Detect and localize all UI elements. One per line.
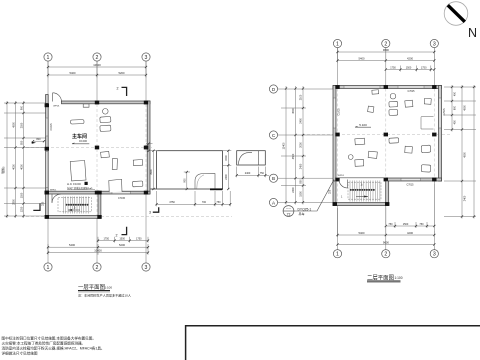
svg-text:750: 750 bbox=[216, 201, 221, 204]
svg-text:2: 2 bbox=[116, 234, 118, 238]
svg-text:C1915: C1915 bbox=[50, 123, 53, 131]
svg-text:2400: 2400 bbox=[292, 187, 295, 193]
grid bubble 3 bottom (plan1) bbox=[142, 263, 150, 271]
svg-text:750: 750 bbox=[260, 172, 265, 175]
svg-text:800: 800 bbox=[36, 138, 41, 141]
svg-text:±0.000: ±0.000 bbox=[79, 139, 87, 143]
svg-text:4050: 4050 bbox=[12, 164, 15, 170]
svg-text:2: 2 bbox=[117, 87, 119, 91]
svg-text:C7015: C7015 bbox=[406, 183, 414, 186]
general notes bbox=[2, 336, 105, 356]
ramp dim vertical 900 bbox=[184, 171, 191, 190]
stair room right wall (plan1) bbox=[98, 194, 101, 218]
svg-text:1: 1 bbox=[336, 41, 339, 47]
right chain line c (plan2) bbox=[473, 85, 475, 219]
svg-text:850: 850 bbox=[300, 179, 303, 184]
equipment m4 (plan1) bbox=[101, 151, 110, 157]
svg-text:N: N bbox=[468, 26, 477, 40]
svg-text:2400: 2400 bbox=[225, 174, 228, 180]
equipment g (plan2) bbox=[355, 138, 365, 145]
top wall (plan1) bbox=[62, 101, 151, 104]
stair room bottom wall (plan2) bbox=[333, 203, 389, 206]
stair room right wall (plan2) bbox=[386, 181, 389, 206]
svg-text:4750: 4750 bbox=[169, 201, 175, 204]
svg-text:D25: D25 bbox=[328, 189, 331, 194]
svg-text:2: 2 bbox=[384, 41, 387, 47]
svg-text:3: 3 bbox=[433, 252, 436, 258]
top segment dimension (plan2) bbox=[336, 56, 435, 61]
grid bubble 3 top (plan2) bbox=[430, 39, 438, 47]
svg-text:1550: 1550 bbox=[20, 192, 23, 198]
grid bubble 2 bottom (plan2) bbox=[382, 250, 390, 258]
svg-text:2: 2 bbox=[96, 265, 99, 271]
svg-text:上: 上 bbox=[360, 182, 363, 186]
grid bubble 2 top (plan1) bbox=[93, 53, 101, 61]
svg-text:2100: 2100 bbox=[300, 94, 303, 100]
svg-text:1500: 1500 bbox=[225, 155, 228, 161]
svg-text:C7015: C7015 bbox=[443, 108, 446, 116]
equipment k (plan2) bbox=[389, 138, 399, 143]
svg-text:4200: 4200 bbox=[407, 56, 413, 60]
ramp platform apron line bbox=[151, 188, 157, 190]
svg-text:2450: 2450 bbox=[300, 163, 303, 169]
stair room bottom wall (plan1) bbox=[46, 216, 101, 219]
svg-text:上: 上 bbox=[73, 206, 76, 210]
stair up arrow (plan1) bbox=[68, 206, 80, 211]
svg-text:700: 700 bbox=[202, 201, 207, 204]
grid line 2 (plan2) bbox=[385, 48, 387, 250]
stair down arrow (plan2) bbox=[341, 182, 368, 198]
right wall (plan1) bbox=[147, 101, 150, 194]
equipment c (plan2) bbox=[372, 90, 379, 94]
bottom overall dimension (plan2) bbox=[336, 240, 435, 245]
svg-text:2400: 2400 bbox=[245, 172, 251, 175]
svg-text:9600: 9600 bbox=[383, 48, 389, 52]
svg-text:5400: 5400 bbox=[359, 231, 365, 235]
grid bubble 1 top (plan2) bbox=[333, 39, 341, 47]
svg-text:450: 450 bbox=[453, 120, 456, 125]
svg-text:C7015: C7015 bbox=[407, 90, 415, 93]
equipment i (plan2) bbox=[368, 151, 377, 158]
top overall dimension 9600 (plan2) bbox=[336, 48, 435, 63]
svg-text:4200: 4200 bbox=[407, 231, 413, 235]
crane callout DYQ25-1 bbox=[283, 206, 311, 217]
svg-text:1500: 1500 bbox=[119, 237, 125, 240]
stair room columns (plan2) bbox=[333, 202, 390, 206]
svg-text:1:100: 1:100 bbox=[105, 286, 113, 290]
svg-text:3900: 3900 bbox=[150, 169, 153, 175]
svg-text:1550: 1550 bbox=[300, 191, 303, 197]
left wall (plan2) bbox=[333, 86, 336, 182]
right chain line b (plan2) bbox=[461, 85, 466, 219]
svg-text:1750: 1750 bbox=[390, 66, 396, 69]
svg-text:一一: 一一 bbox=[286, 208, 292, 211]
svg-text:1: 1 bbox=[47, 265, 50, 271]
left chain line b (plan2) bbox=[292, 86, 296, 205]
right wall (plan2) bbox=[439, 86, 442, 182]
bottom overall dimension (plan1) bbox=[47, 248, 149, 253]
svg-text:900: 900 bbox=[184, 178, 187, 183]
right chain line a (plan2) bbox=[451, 85, 456, 132]
grid line 3 (plan1) bbox=[145, 62, 147, 263]
top overall dimension 10600 (plan1) bbox=[47, 62, 147, 78]
section mark 3 right (plan1) bbox=[149, 207, 159, 214]
grid row line bottom (plan1) bbox=[26, 216, 232, 218]
svg-text:2400: 2400 bbox=[300, 118, 303, 124]
ramp platform outline bbox=[157, 151, 223, 189]
svg-text:750: 750 bbox=[388, 223, 393, 226]
bottom wall window C7015 (plan1) bbox=[112, 192, 131, 194]
equipment b (plan2) bbox=[389, 109, 398, 115]
ramp dark kerb bbox=[210, 188, 223, 190]
grid bubble 3 bottom (plan2) bbox=[430, 250, 438, 258]
equipment h circle (plan2) bbox=[348, 155, 353, 160]
stair door arc (plan1) bbox=[52, 194, 61, 203]
svg-text:5400: 5400 bbox=[70, 71, 76, 75]
floor level label A.C (plan1) bbox=[67, 182, 95, 190]
stair room left wall (plan1) bbox=[46, 194, 49, 218]
svg-text:C7015: C7015 bbox=[118, 197, 126, 200]
grid bubble B (plan2) bbox=[269, 174, 277, 182]
svg-text:5400: 5400 bbox=[69, 243, 75, 247]
svg-text:5.100: 5.100 bbox=[359, 123, 367, 127]
right wall window (plan2) bbox=[439, 98, 441, 128]
grid row line mid (plan1) bbox=[26, 147, 152, 149]
equipment l (plan2) bbox=[405, 146, 413, 153]
svg-text:5200: 5200 bbox=[119, 243, 125, 247]
left dimension chain extension ticks (plan1) bbox=[4, 103, 46, 216]
side door D25 leaf (plan1) bbox=[33, 203, 40, 210]
svg-text:注：车间同时生产人员最多不超过10人: 注：车间同时生产人员最多不超过10人 bbox=[78, 292, 131, 297]
top segment dimension 5400/5200 (plan1) bbox=[47, 71, 147, 76]
svg-text:图中标注的洞口位置尺寸见结施图,本图设备大样布置见图。: 图中标注的洞口位置尺寸见结施图,本图设备大样布置见图。 bbox=[2, 336, 96, 341]
grid bubble 1 top (plan1) bbox=[44, 53, 52, 61]
grid bubble D (plan2) bbox=[269, 85, 277, 93]
stair baluster dots (plan1) bbox=[66, 204, 89, 206]
svg-text:火灾报警:本工程按丁类危险性厂房配置感烟探测器。: 火灾报警:本工程按丁类危险性厂房配置感烟探测器。 bbox=[2, 341, 86, 346]
left wall window (plan2) bbox=[333, 98, 335, 128]
section mark 2 top (plan1) bbox=[117, 87, 127, 97]
grid line 1 (plan1) bbox=[47, 62, 49, 263]
equipment m5 (plan1) bbox=[112, 158, 117, 169]
svg-text:4500: 4500 bbox=[463, 105, 466, 111]
svg-text:4500: 4500 bbox=[292, 153, 295, 159]
title block box bbox=[186, 326, 480, 360]
svg-text:3: 3 bbox=[433, 41, 436, 47]
equipment machine 3 (plan1) bbox=[100, 125, 111, 131]
grid bubble 1 bottom (plan2) bbox=[333, 250, 341, 258]
grid bubble 2 top (plan2) bbox=[382, 39, 390, 47]
svg-text:4500: 4500 bbox=[463, 152, 466, 158]
left dimension chain line b (plan1) bbox=[12, 101, 16, 218]
equipment circle (plan2) bbox=[390, 93, 396, 99]
equipment circle machine (plan1) bbox=[103, 109, 109, 115]
bottom wall (plan1) bbox=[46, 191, 150, 194]
svg-text:D25: D25 bbox=[42, 201, 45, 206]
equipment j (plan2) bbox=[355, 159, 364, 166]
svg-text:11400: 11400 bbox=[283, 142, 286, 149]
stair top line (plan2) bbox=[336, 177, 386, 179]
svg-text:10600: 10600 bbox=[94, 248, 102, 252]
stair handrail dashed (plan2) bbox=[348, 182, 381, 199]
stair room columns (plan1) bbox=[45, 191, 102, 219]
ramp inner slope bbox=[195, 174, 215, 189]
top wall window 2 C7015 (plan2) bbox=[398, 86, 424, 88]
columns (plan2) bbox=[335, 85, 436, 181]
svg-text:WPD1: WPD1 bbox=[338, 175, 345, 177]
ramp bottom dim bbox=[155, 191, 231, 206]
stair treads (plan2) bbox=[350, 181, 380, 202]
left wall upper stub (plan1) bbox=[46, 95, 49, 104]
stair room left wall (plan2) bbox=[333, 181, 336, 206]
svg-text:2400: 2400 bbox=[463, 195, 466, 201]
grid bubble 1 bottom (plan1) bbox=[44, 263, 52, 271]
left dimension chain line a (plan1) bbox=[20, 101, 24, 218]
left dimension chain line c overall (plan1) bbox=[3, 101, 9, 218]
equipment m (plan2) bbox=[421, 145, 431, 153]
svg-text:1: 1 bbox=[47, 55, 50, 61]
svg-text:850: 850 bbox=[20, 140, 23, 145]
right chain extension ticks (plan2) bbox=[444, 87, 476, 217]
svg-text:8500: 8500 bbox=[2, 168, 5, 174]
left wall window C1915 (plan1) bbox=[46, 118, 48, 136]
top mini dimension (plan2) bbox=[385, 66, 436, 72]
left chain line a (plan2) bbox=[300, 86, 304, 205]
svg-text:3: 3 bbox=[145, 55, 148, 61]
svg-text:2: 2 bbox=[384, 252, 387, 258]
equipment a (plan2) bbox=[389, 101, 398, 107]
room label 主车间 (plan1) bbox=[72, 133, 89, 144]
stair treads (plan1) bbox=[64, 197, 89, 214]
svg-text:二层平面图: 二层平面图 bbox=[367, 274, 394, 282]
svg-text:750: 750 bbox=[419, 223, 424, 226]
svg-text:3: 3 bbox=[145, 265, 148, 271]
title 二层平面图 (plan2) bbox=[367, 274, 403, 283]
grid row C dashed (plan2) bbox=[302, 134, 452, 136]
svg-text:1:100: 1:100 bbox=[395, 276, 403, 280]
svg-text:1750: 1750 bbox=[136, 237, 142, 240]
svg-text:5400: 5400 bbox=[359, 56, 365, 60]
equipment d (plan2) bbox=[368, 106, 374, 112]
entrance door M1 (plan1) bbox=[53, 93, 62, 102]
left door dimension 800 (plan1) bbox=[32, 138, 46, 144]
columns (plan1) bbox=[45, 101, 149, 195]
bottom wall window C7015 (plan2) bbox=[401, 178, 421, 180]
grid bubble C (plan2) bbox=[269, 131, 277, 139]
left chain line c (plan2) bbox=[283, 86, 287, 205]
bottom segment dimension (plan1) bbox=[47, 243, 149, 255]
svg-text:1: 1 bbox=[336, 252, 339, 258]
svg-text:450: 450 bbox=[453, 91, 456, 96]
grid bubble A (plan2) bbox=[269, 198, 277, 206]
grid line 1 (plan2) bbox=[337, 48, 339, 250]
equipment n (plan2) bbox=[421, 165, 431, 172]
equipment m8 (plan1) bbox=[132, 181, 142, 187]
step corner (plan2) bbox=[421, 117, 434, 130]
svg-text:消防室内消火栓箱均配干粉灭火器,规格:HFAC2、MFAC4: 消防室内消火栓箱均配干粉灭火器,规格:HFAC2、MFAC4各1具。 bbox=[2, 346, 105, 351]
ramp block dim 2400/750 bbox=[236, 167, 270, 178]
stair handrail dashed (plan1) bbox=[58, 198, 92, 212]
svg-text:900: 900 bbox=[20, 105, 23, 110]
svg-text:4500: 4500 bbox=[292, 108, 295, 114]
svg-text:1750: 1750 bbox=[421, 66, 427, 69]
row lines to bubbles (plan2) bbox=[278, 89, 333, 203]
equipment e (plan2) bbox=[405, 100, 413, 107]
stair baluster dots (plan2) bbox=[350, 189, 375, 191]
svg-text:2550: 2550 bbox=[20, 122, 23, 128]
wall-mounted box (plan1) bbox=[83, 104, 89, 107]
top wall window 1 (plan2) bbox=[344, 86, 380, 88]
section mark 2 bottom (plan1) bbox=[116, 227, 127, 238]
top wall (plan2) bbox=[333, 86, 442, 89]
svg-text:1750: 1750 bbox=[104, 237, 110, 240]
grid line 2 (plan1) bbox=[96, 62, 98, 263]
left chain extension ticks (plan2) bbox=[281, 108, 306, 186]
svg-text:一层平面图: 一层平面图 bbox=[78, 283, 105, 291]
ramp upper dim 800 bbox=[146, 142, 153, 151]
svg-text:B: B bbox=[272, 176, 275, 181]
svg-text:72: 72 bbox=[287, 213, 291, 217]
svg-text:C1915: C1915 bbox=[338, 108, 341, 116]
stair door arc (plan2) bbox=[339, 180, 348, 189]
ramp dim vertical right bbox=[223, 150, 232, 191]
svg-text:600: 600 bbox=[453, 105, 456, 110]
bottom mini dimension (plan2) bbox=[385, 184, 436, 228]
svg-text:1250: 1250 bbox=[20, 206, 23, 212]
north arrow bbox=[444, 2, 477, 40]
svg-text:WPD1: WPD1 bbox=[50, 189, 57, 191]
svg-text:5200: 5200 bbox=[119, 71, 125, 75]
svg-text:10600: 10600 bbox=[93, 63, 101, 67]
grid line 3 (plan2) bbox=[433, 48, 435, 250]
equipment large table (plan1) bbox=[70, 161, 86, 181]
equipment bench (plan1) bbox=[70, 120, 84, 124]
equipment m7 open box (plan1) bbox=[109, 179, 122, 192]
svg-text:4050: 4050 bbox=[20, 164, 23, 170]
svg-text:4500: 4500 bbox=[12, 122, 15, 128]
svg-text:2: 2 bbox=[96, 55, 99, 61]
svg-text:9600: 9600 bbox=[383, 240, 389, 244]
level label 5.100 (plan2) bbox=[355, 123, 371, 127]
grid bubble 2 bottom (plan1) bbox=[93, 263, 101, 271]
equipment f (plan2) bbox=[424, 98, 431, 104]
ramp upper-right block bbox=[237, 151, 266, 165]
bottom segment dimension (plan2) bbox=[336, 208, 435, 237]
svg-text:800: 800 bbox=[146, 144, 149, 149]
equipment machine 2 (plan1) bbox=[100, 116, 111, 122]
left wall (plan1) bbox=[46, 104, 49, 195]
svg-text:WPD1: WPD1 bbox=[53, 106, 60, 108]
bottom mini dimension (plan1) bbox=[97, 237, 149, 243]
ramp dim vertical 1400 bbox=[150, 150, 158, 191]
svg-text:A.C ±0.00: A.C ±0.00 bbox=[67, 182, 81, 186]
svg-text:3: 3 bbox=[149, 211, 151, 215]
svg-text:1500: 1500 bbox=[403, 223, 409, 226]
svg-text:详细做法尺寸见结施图: 详细做法尺寸见结施图 bbox=[2, 351, 38, 356]
svg-text:1500: 1500 bbox=[406, 66, 412, 69]
grid bubble 3 top (plan1) bbox=[142, 53, 150, 61]
callout leader line bbox=[294, 180, 334, 212]
bottom wall (plan2) bbox=[386, 178, 442, 181]
left wall lower window (plan1) bbox=[46, 152, 48, 188]
title 一层平面图 (plan1) bbox=[78, 283, 112, 292]
svg-text:2050: 2050 bbox=[300, 142, 303, 148]
svg-text:主车间: 主车间 bbox=[72, 133, 87, 140]
svg-text:2800: 2800 bbox=[12, 199, 15, 205]
equipment m6 (plan1) bbox=[133, 159, 143, 165]
svg-text:吊车: 吊车 bbox=[299, 211, 305, 216]
